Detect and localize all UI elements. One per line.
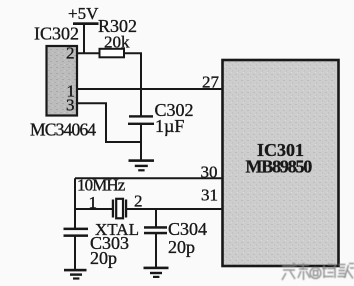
svg-text:1µF: 1µF: [155, 116, 184, 136]
wire IC302 pin1 to IC301 pin27: [77, 88, 223, 90]
wire crystal left lead: [75, 208, 112, 210]
svg-text:10MHz: 10MHz: [77, 176, 126, 195]
wire crystal node down to C303: [74, 209, 76, 229]
capacitor C303 bottom plate: [64, 234, 89, 237]
wire C302 bottom to ground: [140, 124, 142, 160]
svg-text:20p: 20p: [90, 248, 117, 268]
svg-text:+5V: +5V: [68, 4, 99, 23]
crystal XTAL right plate: [125, 200, 127, 218]
capacitor C302 bottom plate: [128, 123, 154, 125]
wire IC301 pin30 line: [75, 177, 223, 179]
power +5V rail bar: [73, 22, 99, 25]
svg-text:3: 3: [66, 96, 75, 115]
wire +5V to node A: [83, 24, 85, 54]
svg-text:IC302: IC302: [34, 24, 79, 44]
resistor R302 body: [100, 49, 125, 58]
wire IC302 pin3 jog to C302 bottom node: [77, 103, 141, 142]
capacitor C303 top plate: [64, 228, 89, 231]
svg-text:20p: 20p: [168, 237, 195, 257]
wire C304 bottom to ground: [155, 234, 157, 268]
ground below C303: [64, 269, 87, 280]
wire C303 bottom to ground: [74, 236, 76, 270]
capacitor C304 top plate: [144, 226, 167, 229]
crystal XTAL body: [116, 199, 123, 219]
svg-text:2: 2: [66, 44, 75, 63]
crystal XTAL left plate: [112, 200, 114, 218]
svg-text:MC34064: MC34064: [30, 120, 96, 140]
svg-text:27: 27: [202, 73, 220, 92]
svg-text:30: 30: [201, 163, 218, 182]
svg-text:C304: C304: [168, 219, 207, 239]
ground below C304: [144, 267, 169, 278]
svg-text:2: 2: [134, 192, 143, 211]
capacitor C302 top plate: [129, 115, 153, 117]
wire crystal right lead to IC301 pin31: [127, 208, 223, 210]
IC301 microcontroller body: [223, 60, 339, 266]
op-amp U IC302 body: [47, 46, 78, 116]
wire pin31 node down to C304: [155, 209, 157, 228]
svg-text:31: 31: [201, 186, 218, 205]
wire pin30 down to crystal node: [74, 178, 76, 209]
ground below C302: [129, 159, 155, 171]
wire IC302 pin2 to resistor R302: [77, 52, 100, 54]
capacitor C304 bottom plate: [144, 232, 167, 235]
watermark 头条@维修人聚: [282, 263, 354, 280]
svg-text:MB89850: MB89850: [246, 157, 313, 177]
wire R302 right to vertical: [124, 53, 141, 116]
